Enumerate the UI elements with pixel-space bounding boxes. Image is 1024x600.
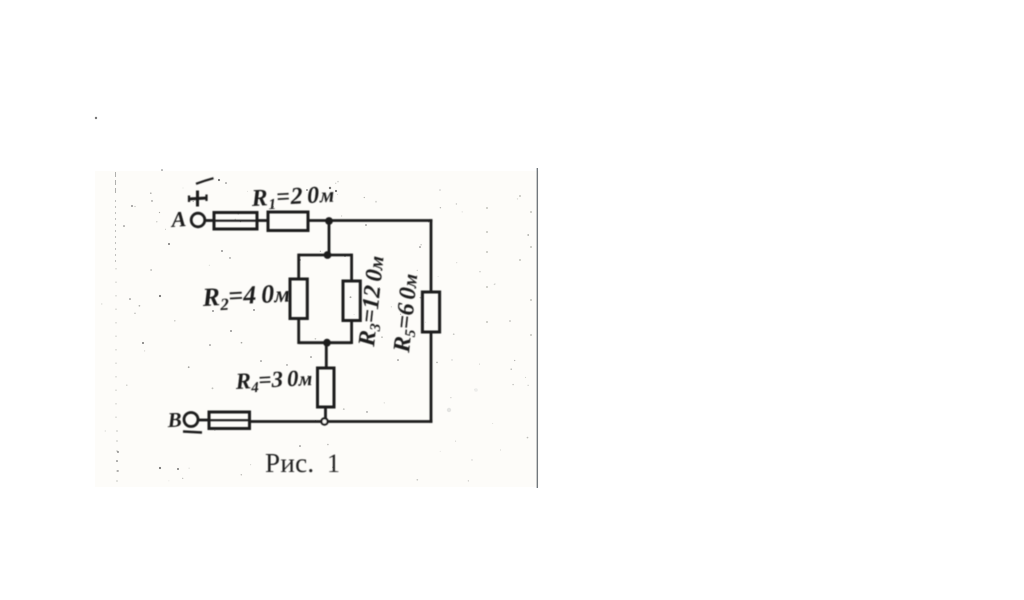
parallel block top bar [299, 254, 352, 257]
left branch wire [297, 254, 300, 279]
fuse at B [209, 412, 250, 429]
wire A to fuse [205, 219, 214, 222]
parallel block bottom bar [299, 341, 352, 344]
wire B to fuse [198, 419, 209, 422]
wire to R4 [325, 343, 328, 368]
scanned page area [95, 171, 539, 487]
wire R4 to bottom rail [324, 407, 327, 422]
svg-text:B: B [166, 407, 182, 432]
right branch wire lower [350, 321, 353, 345]
svg-text:Рис.: Рис. [265, 448, 314, 478]
svg-text:A: A [169, 206, 187, 232]
wire fuse to R1 [257, 219, 268, 222]
node dot top of parallel block [324, 251, 332, 259]
resistor R1 [268, 212, 308, 231]
node B terminal circle [184, 413, 198, 427]
bottom rail wire [250, 420, 433, 423]
scan right edge line [536, 168, 538, 488]
scan left dashed fold line [116, 172, 118, 487]
stray pen dash [196, 178, 214, 184]
svg-text:1: 1 [327, 449, 340, 478]
right branch wire [350, 254, 353, 281]
node dot bottom of parallel block [323, 339, 331, 347]
junction node (top) [325, 217, 333, 225]
left branch wire lower [297, 319, 300, 345]
wire junction down [328, 221, 331, 256]
right branch lower wire [430, 332, 433, 423]
caption Fig. 1 [265, 448, 340, 478]
plus polarity mark [189, 191, 208, 207]
resistor R2 [290, 279, 307, 319]
node A terminal circle [191, 213, 205, 227]
open junction node on bottom rail [321, 418, 327, 424]
resistor R5 [422, 292, 439, 332]
wire R1 to top-right corner [308, 219, 432, 222]
resistor R4 [318, 368, 335, 407]
fuse at A [214, 213, 257, 230]
underline below B terminal [183, 432, 202, 433]
right branch: corner down [430, 219, 433, 292]
resistor R3 [343, 281, 360, 321]
